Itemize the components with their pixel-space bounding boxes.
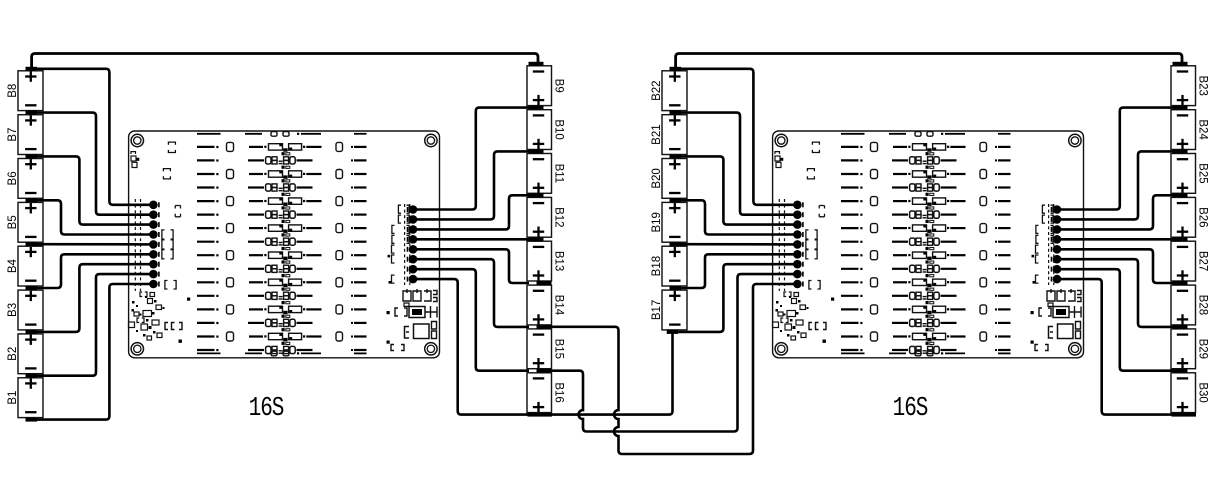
svg-text:B10: B10 xyxy=(552,119,564,139)
svg-text:B6: B6 xyxy=(7,171,19,185)
svg-text:B11: B11 xyxy=(552,164,564,184)
svg-text:B30: B30 xyxy=(1196,382,1208,402)
svg-text:16S: 16S xyxy=(893,394,928,424)
svg-text:B8: B8 xyxy=(7,84,19,98)
svg-text:B4: B4 xyxy=(7,258,19,273)
svg-text:B7: B7 xyxy=(7,128,19,142)
svg-text:B22: B22 xyxy=(651,80,663,100)
svg-text:B28: B28 xyxy=(1196,295,1208,315)
svg-text:B15: B15 xyxy=(552,339,564,359)
svg-text:B13: B13 xyxy=(552,251,564,271)
svg-text:B26: B26 xyxy=(1196,207,1208,227)
svg-text:B29: B29 xyxy=(1196,339,1208,359)
svg-text:B24: B24 xyxy=(1196,119,1208,140)
svg-text:B5: B5 xyxy=(7,215,19,229)
svg-text:B21: B21 xyxy=(651,124,663,144)
svg-text:B12: B12 xyxy=(552,207,564,227)
svg-text:B27: B27 xyxy=(1196,251,1208,271)
svg-text:B9: B9 xyxy=(552,79,564,93)
svg-text:B1: B1 xyxy=(7,391,19,405)
svg-text:B19: B19 xyxy=(651,212,663,232)
svg-text:B16: B16 xyxy=(552,382,564,402)
svg-text:B18: B18 xyxy=(651,256,663,276)
svg-text:16S: 16S xyxy=(249,394,284,424)
svg-text:B2: B2 xyxy=(7,347,19,361)
svg-text:B20: B20 xyxy=(651,168,663,188)
svg-text:B17: B17 xyxy=(651,300,663,320)
svg-text:B23: B23 xyxy=(1196,75,1208,95)
svg-text:B25: B25 xyxy=(1196,163,1208,183)
svg-text:B14: B14 xyxy=(552,295,564,316)
svg-text:B3: B3 xyxy=(7,303,19,317)
